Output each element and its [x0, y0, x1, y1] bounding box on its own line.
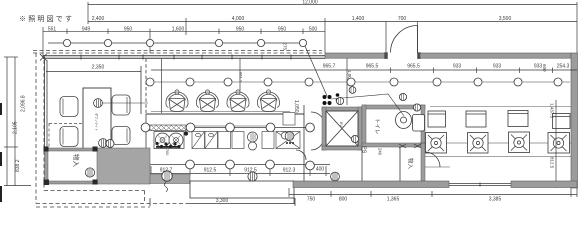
power dots [323, 95, 332, 105]
light row 4 [150, 164, 330, 166]
entrance hall partition [346, 59, 348, 106]
squiggle break mark [165, 182, 168, 192]
svg-text:240: 240 [378, 148, 383, 156]
window marks on toilet bottom wall [399, 144, 421, 148]
svg-text:254.3: 254.3 [557, 64, 570, 70]
entrance door [391, 26, 418, 53]
upper squares [428, 111, 570, 129]
stove unit [154, 132, 184, 149]
entrance door to dining [425, 152, 440, 167]
svg-text:961.7: 961.7 [239, 72, 244, 83]
counter top edge [146, 113, 304, 115]
svg-text:965.7: 965.7 [323, 64, 336, 70]
svg-text:965.5: 965.5 [407, 64, 420, 70]
hatched circle right end [285, 132, 294, 141]
svg-text:600: 600 [542, 64, 547, 72]
svg-text:※照明図です: ※照明図です [19, 15, 74, 23]
extra symbols near light row2 [349, 87, 356, 94]
svg-text:トイレ: トイレ [374, 118, 380, 135]
svg-text:1,600: 1,600 [172, 26, 185, 32]
kitchen lower dim row [150, 166, 330, 176]
svg-text:3,385: 3,385 [489, 197, 502, 203]
kitchen right end unit [283, 113, 295, 126]
left wall [45, 57, 147, 174]
svg-text:4,000: 4,000 [232, 16, 245, 22]
left edge scan marks [0, 103, 2, 202]
2350 dim [46, 71, 141, 73]
dumbwaiter room [322, 107, 362, 150]
dashed highlight around lower-left chair [49, 124, 83, 149]
svg-text:750: 750 [307, 197, 316, 203]
light row 3 [190, 127, 310, 129]
lower grill tables [420, 142, 571, 144]
canopy dashed line [33, 50, 322, 52]
svg-text:12,000: 12,000 [302, 0, 318, 6]
svg-text:700: 700 [398, 16, 407, 22]
hatched strip [146, 125, 186, 131]
svg-text:949: 949 [82, 26, 91, 32]
storefront glazing [43, 55, 325, 60]
door arcs corridor [296, 112, 325, 160]
svg-text:2,350: 2,350 [92, 65, 105, 71]
corner mark [40, 54, 47, 61]
svg-text:933: 933 [534, 64, 543, 70]
toilet room [362, 105, 425, 181]
chairs left top [60, 95, 130, 147]
extension verticals row1/row2 [87, 2, 89, 24]
leader + lights [331, 94, 404, 116]
svg-text:1,437.5: 1,437.5 [550, 103, 555, 119]
svg-text:950: 950 [236, 26, 245, 32]
svg-text:物入: 物入 [72, 154, 81, 168]
svg-text:812.5: 812.5 [550, 157, 555, 169]
svg-text:400: 400 [316, 167, 325, 173]
svg-text:2,400: 2,400 [92, 16, 105, 22]
svg-text:551: 551 [48, 26, 57, 32]
svg-text:2,105: 2,105 [13, 121, 19, 134]
table [83, 88, 111, 150]
PS / storage rooms [362, 147, 400, 181]
platform edge [430, 106, 571, 108]
svg-text:950: 950 [124, 26, 133, 32]
top gray walls [325, 53, 578, 188]
hatched ceiling lights over table [94, 99, 108, 148]
svg-text:物入: 物入 [407, 158, 415, 170]
svg-text:933: 933 [453, 64, 462, 70]
svg-text:838.2: 838.2 [15, 159, 21, 172]
svg-text:933: 933 [493, 64, 502, 70]
svg-text:PS: PS [361, 146, 367, 154]
vertical dim right [555, 100, 557, 188]
pot circles [248, 132, 289, 150]
svg-text:3,500: 3,500 [499, 16, 512, 22]
svg-text:912.5: 912.5 [204, 168, 217, 174]
hatched lights bottom [85, 140, 339, 182]
svg-text:2,096.8: 2,096.8 [21, 95, 27, 112]
svg-text:912.3: 912.3 [283, 168, 296, 174]
svg-text:800: 800 [339, 197, 348, 203]
svg-text:700: 700 [165, 149, 169, 155]
svg-text:965.5: 965.5 [366, 64, 379, 70]
svg-text:3,300: 3,300 [216, 198, 229, 204]
svg-text:1,365: 1,365 [387, 197, 400, 203]
svg-text:1,400: 1,400 [352, 16, 365, 22]
svg-text:500: 500 [309, 26, 318, 32]
row3 ticks [42, 27, 44, 57]
svg-text:ダウンライト: ダウンライト [95, 113, 100, 131]
svg-text:1,050: 1,050 [293, 100, 299, 113]
sinks [192, 132, 300, 149]
svg-text:EV: EV [339, 122, 343, 127]
window bottom [449, 183, 511, 187]
toilet fixture [396, 112, 425, 132]
svg-text:950: 950 [278, 26, 287, 32]
svg-text:275: 275 [283, 43, 288, 51]
storage room walls [45, 148, 98, 184]
